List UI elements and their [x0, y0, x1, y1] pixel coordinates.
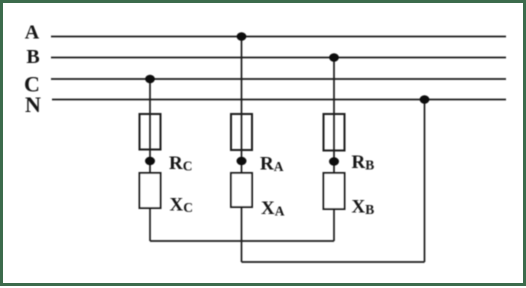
- svg-text:N: N: [25, 92, 41, 117]
- resistor RA: [231, 114, 252, 150]
- node on line N: [420, 95, 430, 104]
- wire phase line C: [51, 78, 506, 80]
- node RC-XC junction: [145, 157, 155, 165]
- wire bottom link Xa-N: [242, 261, 425, 263]
- wire neutral drop: [424, 100, 426, 263]
- wire phase line B: [51, 57, 506, 59]
- node on line C: [145, 75, 155, 84]
- wire bottom link Xc-Xb: [150, 240, 334, 242]
- wire branch C vertical: [149, 79, 151, 241]
- svg-text:B: B: [26, 46, 39, 68]
- reactor XC: [140, 173, 161, 208]
- reactor XA: [231, 173, 252, 207]
- node on line A: [237, 32, 247, 41]
- node RB-XB junction: [329, 157, 339, 165]
- resistor RB: [324, 114, 345, 151]
- resistor RC: [140, 114, 161, 150]
- wire branch B vertical: [333, 58, 335, 242]
- reactor XB: [324, 173, 345, 209]
- wire branch A vertical: [241, 37, 243, 263]
- svg-text:A: A: [25, 22, 40, 44]
- wire neutral line N: [52, 99, 506, 101]
- node on line B: [329, 53, 339, 62]
- node RA-XA junction: [237, 157, 247, 165]
- wire phase line A: [51, 36, 506, 38]
